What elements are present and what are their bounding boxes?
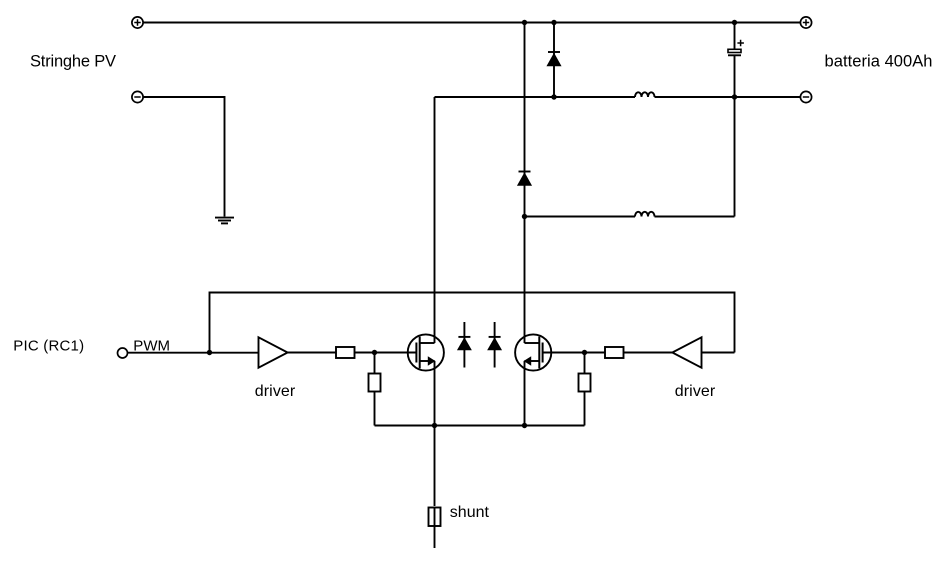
svg-text:Stringhe PV: Stringhe PV xyxy=(30,52,116,70)
svg-text:shunt: shunt xyxy=(450,504,490,521)
node R4-R3 junction xyxy=(582,350,587,355)
wire PV minus to ground xyxy=(143,97,224,217)
ground xyxy=(215,218,234,224)
diode D4 (body diode) xyxy=(488,322,501,368)
svg-text:batteria 400Ah: batteria 400Ah xyxy=(825,52,933,70)
inductor L2 xyxy=(635,212,655,217)
shunt resistor xyxy=(429,508,441,527)
wire capacitor branch top xyxy=(734,23,736,50)
node top rail / Q2 branch xyxy=(522,20,527,25)
terminal PV plus xyxy=(132,17,143,28)
node PWM junction xyxy=(207,350,212,355)
node source rail / Q2 source xyxy=(522,423,527,428)
wire driver2 input from feedback xyxy=(702,352,735,354)
mosfet Q2 (mirrored) xyxy=(515,334,551,370)
terminal PV minus xyxy=(132,91,143,102)
node R1-R2 junction xyxy=(372,350,377,355)
wire M2 source to lower node xyxy=(524,361,526,426)
wire vertical x=524.5 top rail to diode D2 xyxy=(524,23,526,344)
node top rail / D1 branch xyxy=(551,20,556,25)
node source rail / shunt xyxy=(432,423,437,428)
svg-text:PIC (RC1): PIC (RC1) xyxy=(13,338,84,355)
node output rail / D1 xyxy=(551,94,556,99)
resistor R3 (pulldown right, vertical) xyxy=(579,353,591,426)
svg-text:driver: driver xyxy=(255,383,296,400)
wire PWM input line xyxy=(128,352,259,354)
driver U1 (buffer, pointing right) xyxy=(259,337,288,367)
diode D1 xyxy=(547,52,560,66)
wire vertical x=434.5 from rail to M1 drain xyxy=(434,97,436,343)
resistor R4 (gate right, horizontal) xyxy=(605,347,624,358)
terminal battery plus xyxy=(800,17,811,28)
capacitor C1 (polarized) xyxy=(728,40,744,56)
wire below shunt xyxy=(434,526,436,548)
wire M1 source down to lower node xyxy=(434,361,436,506)
wire R1 to M1 gate xyxy=(355,352,417,354)
mosfet Q1 xyxy=(408,334,444,370)
resistor R2 (pulldown left, vertical) xyxy=(369,353,381,426)
resistor R1 (gate, horizontal) xyxy=(336,347,355,358)
node top rail / C1 branch xyxy=(732,20,737,25)
wire diode D1 branch xyxy=(553,23,555,98)
wire lower source rail xyxy=(375,425,585,427)
wire lower loop with inductor L2 xyxy=(655,216,735,218)
diode D2 xyxy=(518,172,531,186)
wire second rail (output) with inductor L1 xyxy=(435,96,636,98)
terminal battery minus xyxy=(800,91,811,102)
inductor L1 xyxy=(635,92,655,97)
wire top positive rail xyxy=(143,22,800,24)
wire feedback top rail xyxy=(210,293,735,353)
wire capacitor bottom to lower loop xyxy=(734,55,736,216)
terminal PWM input xyxy=(118,348,128,358)
svg-text:driver: driver xyxy=(675,383,716,400)
wire M2 gate to R4 xyxy=(543,352,605,354)
node output rail / C1 xyxy=(732,94,737,99)
wire R4 to driver2 xyxy=(624,352,673,354)
diode D3 (body diode) xyxy=(458,322,471,368)
wire driver1 out to gate resistor xyxy=(288,352,336,354)
svg-text:PWM: PWM xyxy=(133,338,170,355)
node lower loop / Q2 drain xyxy=(522,214,527,219)
driver U2 (buffer, pointing left) xyxy=(672,337,701,367)
